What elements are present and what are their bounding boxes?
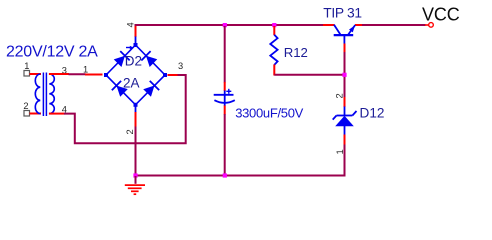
bridge rectifier D2 <box>104 43 167 107</box>
wire base down to node <box>344 44 346 98</box>
plus polarity arrow at top node <box>126 46 133 50</box>
diode bottom-left edge <box>112 81 129 98</box>
wire zener top stub <box>344 97 346 116</box>
node squares <box>104 73 108 77</box>
wire zener bottom to ground rail <box>136 126 345 176</box>
VCC port circle <box>429 23 434 28</box>
diode top-left edge <box>113 51 130 68</box>
wire R12 bottom to base node <box>274 65 344 76</box>
emitter lead <box>348 25 355 35</box>
transformer terminal square pin 2 <box>24 111 30 117</box>
svg-text:TIP 31: TIP 31 <box>323 6 362 21</box>
diode bottom-right edge <box>142 81 159 98</box>
curved bottom plate <box>214 100 234 103</box>
secondary winding <box>49 74 54 114</box>
wire cap branch lower <box>224 104 226 177</box>
svg-text:R12: R12 <box>284 45 308 60</box>
center lead between plates <box>224 95 226 104</box>
cathode bar <box>337 115 353 117</box>
collector lead <box>334 25 341 35</box>
svg-text:220V/12V 2A: 220V/12V 2A <box>6 44 98 61</box>
svg-text:2: 2 <box>23 101 28 111</box>
bridge pin 2 stub (bottom) <box>135 106 137 176</box>
wire terminal 1 to primary <box>30 73 42 75</box>
base bar <box>334 34 354 36</box>
wire cap branch upper <box>224 26 226 95</box>
svg-text:2A: 2A <box>123 76 140 91</box>
wire terminal 2 to primary <box>30 113 42 115</box>
transistor Q1 TIP31 (NPN) <box>334 25 356 44</box>
svg-text:1: 1 <box>83 65 88 75</box>
svg-text:2: 2 <box>125 129 135 134</box>
diode top-right edge <box>141 51 158 68</box>
top plate <box>214 94 234 96</box>
junction dot base node <box>342 73 346 77</box>
resistor R12 <box>270 35 277 65</box>
wire transformer pin4 loop to bridge pin3 <box>49 75 186 143</box>
junction dot cap bottom <box>223 173 227 177</box>
svg-text:4: 4 <box>125 22 135 27</box>
svg-text:VCC: VCC <box>422 4 460 24</box>
base lead down <box>343 35 345 44</box>
core lines <box>42 73 44 117</box>
svg-text:D12: D12 <box>360 106 385 121</box>
capacitor C (electrolytic) <box>214 89 235 104</box>
junction dot cap top <box>223 23 227 27</box>
svg-text:1: 1 <box>24 61 29 71</box>
wire R12 top stub <box>273 26 275 35</box>
junction dot R12 top <box>272 23 276 27</box>
transformer T1 <box>35 73 54 117</box>
svg-text:3300uF/50V: 3300uF/50V <box>235 106 303 121</box>
plus sign <box>226 90 231 92</box>
wire transformer pin3 to bridge pin1 <box>49 73 103 76</box>
transformer terminal square pin 1 <box>24 71 30 77</box>
wire emitter to VCC port <box>355 24 429 26</box>
wire top rail from bridge + output to transistor collector <box>136 25 335 36</box>
svg-text:3: 3 <box>178 61 183 71</box>
svg-text:D2: D2 <box>125 54 142 69</box>
zener tick left <box>333 116 337 120</box>
diamond edges <box>106 45 165 105</box>
svg-text:2: 2 <box>335 93 345 98</box>
junction dot ground left <box>133 173 137 177</box>
emitter arrow <box>349 25 355 32</box>
zener diode D12 <box>333 111 357 126</box>
primary winding <box>35 74 40 114</box>
anode triangle <box>335 116 354 127</box>
bridge pin 4 stub (top) <box>135 26 137 44</box>
ground symbol <box>125 176 145 194</box>
zener tick right <box>352 111 356 116</box>
